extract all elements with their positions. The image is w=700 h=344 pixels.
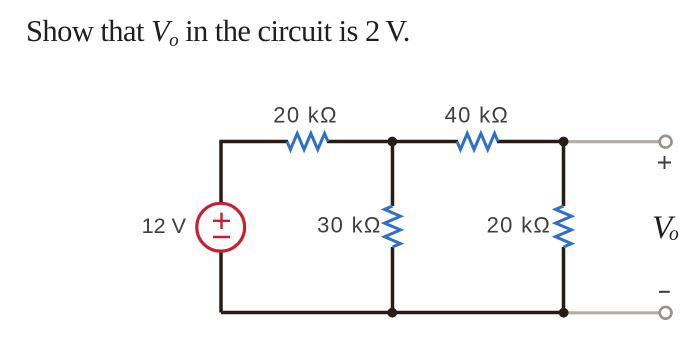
svg-text:o: o [669, 224, 679, 245]
polarity plus sign at output [658, 156, 671, 169]
output terminal bottom [660, 307, 672, 319]
title text [26, 14, 410, 52]
resistor 20 kOhm top-left [287, 134, 328, 150]
junction node: bottom middle [387, 308, 397, 318]
junction node: top right [559, 137, 569, 147]
wire: right vertical lower segment [562, 247, 566, 313]
svg-text:12 V: 12 V [142, 213, 187, 238]
wire: top horizontal right segment [497, 140, 564, 144]
svg-text:20 kΩ: 20 kΩ [487, 213, 552, 238]
resistor 40 kOhm top-right [457, 134, 498, 150]
polarity minus sign at output [659, 291, 670, 293]
wire: gray lead to top output terminal [564, 140, 660, 143]
wire: middle vertical lower segment [391, 247, 395, 313]
voltage source 12 V [197, 203, 245, 251]
label Vo output voltage [652, 210, 679, 246]
label 20 kOhm top-left [273, 103, 338, 128]
output terminal top [660, 136, 672, 148]
label 30 kOhm [317, 213, 382, 238]
label 20 kOhm right [487, 213, 552, 238]
svg-text:40 kΩ: 40 kΩ [445, 103, 510, 128]
resistor 30 kOhm middle vertical [385, 206, 401, 247]
wire: gray lead to bottom output terminal [564, 311, 660, 314]
wire: middle vertical upper segment [391, 142, 395, 207]
label 40 kOhm top-right [445, 103, 510, 128]
wire: bottom horizontal [221, 311, 564, 315]
wire: right vertical upper segment [562, 142, 566, 207]
wire: top horizontal middle segment [327, 140, 458, 144]
junction node: top middle [387, 137, 397, 147]
wire: left vertical branch [219, 140, 223, 313]
wire: top horizontal left segment [221, 140, 288, 144]
junction node: bottom right [559, 308, 569, 318]
svg-text:20 kΩ: 20 kΩ [273, 103, 338, 128]
resistor 20 kOhm right vertical [556, 206, 572, 247]
label 12 V [142, 213, 187, 238]
svg-text:30 kΩ: 30 kΩ [317, 213, 382, 238]
